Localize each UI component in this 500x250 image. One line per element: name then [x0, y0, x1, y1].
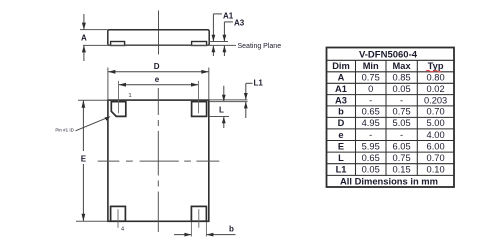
dimension E [81, 100, 87, 221]
pin 4 number [121, 227, 124, 233]
svg-text:Seating Plane: Seating Plane [238, 43, 282, 50]
svg-text:A1: A1 [335, 84, 347, 94]
svg-text:0.75: 0.75 [393, 107, 411, 117]
svg-text:A: A [338, 73, 345, 83]
extension line body top right (L1 upper) [209, 99, 248, 101]
svg-text:0.80: 0.80 [427, 73, 445, 83]
svg-text:0.10: 0.10 [427, 165, 445, 175]
svg-text:0.75: 0.75 [362, 73, 380, 83]
dimension L1 [244, 79, 263, 118]
extension lines for E [76, 100, 107, 221]
svg-text:A3: A3 [335, 95, 347, 105]
svg-text:L1: L1 [336, 165, 347, 175]
svg-text:4.00: 4.00 [427, 130, 445, 140]
dimension A [81, 14, 87, 61]
vertical grid lines [355, 60, 357, 175]
svg-text:0.203: 0.203 [424, 95, 447, 105]
extension lines for b [191, 222, 206, 237]
svg-text:0.15: 0.15 [393, 165, 411, 175]
pad center lines bottom [118, 209, 199, 228]
svg-text:4: 4 [121, 227, 124, 233]
svg-text:Min: Min [363, 61, 379, 71]
dimension e [119, 75, 199, 87]
extension line pad bottom right (L lower) [209, 116, 229, 118]
table row b [338, 107, 444, 117]
table row A3 [335, 95, 447, 105]
extension line lead top right [209, 41, 228, 43]
dimension A1 [212, 11, 234, 56]
svg-text:5.95: 5.95 [362, 141, 380, 151]
svg-text:4.95: 4.95 [362, 118, 380, 128]
svg-text:b: b [338, 107, 344, 117]
dimension A3 [223, 19, 245, 56]
svg-text:-: - [369, 95, 372, 105]
side view left lead [111, 42, 125, 46]
side view body [108, 30, 209, 46]
pad 4 bottom-left [111, 206, 126, 221]
side view center line [158, 11, 160, 55]
dimension table [327, 48, 455, 188]
horizontal grid lines [327, 59, 455, 61]
dimension L [219, 86, 226, 128]
dimension D [108, 62, 209, 74]
svg-text:Typ: Typ [428, 61, 444, 71]
svg-text:0: 0 [368, 84, 373, 94]
extension lines for e (pad center lines, top) [119, 81, 199, 113]
svg-text:0.05: 0.05 [362, 165, 380, 175]
svg-text:A: A [81, 34, 87, 43]
seating plane line [83, 44, 236, 46]
bottom view vertical center line [157, 88, 159, 232]
svg-text:Pin #1 ID: Pin #1 ID [55, 128, 74, 133]
svg-text:6.05: 6.05 [393, 141, 411, 151]
svg-text:0.65: 0.65 [362, 107, 380, 117]
svg-text:0.85: 0.85 [393, 73, 411, 83]
svg-text:e: e [338, 130, 343, 140]
bottom view horizontal center line [98, 160, 220, 162]
pin 1 id label and leader [55, 116, 110, 132]
table row L [338, 153, 444, 163]
svg-text:A1: A1 [223, 11, 234, 20]
svg-text:b: b [229, 225, 234, 234]
table title [359, 50, 418, 61]
svg-text:1: 1 [129, 93, 132, 99]
label seating plane [238, 43, 282, 50]
svg-text:D: D [338, 118, 345, 128]
svg-text:Max: Max [393, 61, 412, 71]
table row E [338, 141, 445, 151]
side view right lead [192, 42, 207, 46]
svg-text:Dim: Dim [332, 61, 350, 71]
svg-text:0.05: 0.05 [393, 84, 411, 94]
svg-text:L: L [219, 106, 224, 115]
svg-text:-: - [400, 130, 403, 140]
table row A1 [335, 84, 445, 94]
table row L1 [336, 165, 445, 175]
svg-text:0.75: 0.75 [393, 153, 411, 163]
svg-text:L1: L1 [254, 79, 264, 88]
extension line body top left [80, 29, 108, 31]
svg-text:5.05: 5.05 [393, 118, 411, 128]
dimension b [174, 225, 236, 237]
svg-text:All Dimensions in mm: All Dimensions in mm [340, 175, 438, 186]
svg-text:-: - [369, 130, 372, 140]
extension line pad top right (L1 lower) [209, 101, 248, 103]
svg-text:0.70: 0.70 [427, 107, 445, 117]
table row e [338, 130, 444, 140]
pad 1 top-left with chamfer [111, 102, 126, 117]
svg-text:L: L [338, 153, 344, 163]
extension lines for D [108, 68, 209, 100]
svg-text:-: - [400, 95, 403, 105]
svg-text:E: E [81, 154, 87, 163]
svg-text:V-DFN5060-4: V-DFN5060-4 [359, 50, 418, 61]
svg-text:A3: A3 [234, 19, 245, 28]
svg-text:5.00: 5.00 [427, 118, 445, 128]
svg-text:0.02: 0.02 [427, 84, 445, 94]
pin 1 number [129, 93, 132, 99]
table row A [338, 73, 445, 83]
svg-text:0.70: 0.70 [427, 153, 445, 163]
svg-text:e: e [155, 75, 160, 84]
bottom view body [108, 100, 209, 221]
svg-text:D: D [154, 62, 160, 71]
svg-text:E: E [338, 141, 344, 151]
table column headers [332, 61, 444, 72]
pad 2 top-right [192, 102, 207, 117]
svg-text:0.65: 0.65 [362, 153, 380, 163]
svg-text:6.00: 6.00 [427, 141, 445, 151]
pad 3 bottom-right [191, 206, 206, 221]
table row D [338, 118, 445, 128]
table footer [340, 175, 438, 186]
